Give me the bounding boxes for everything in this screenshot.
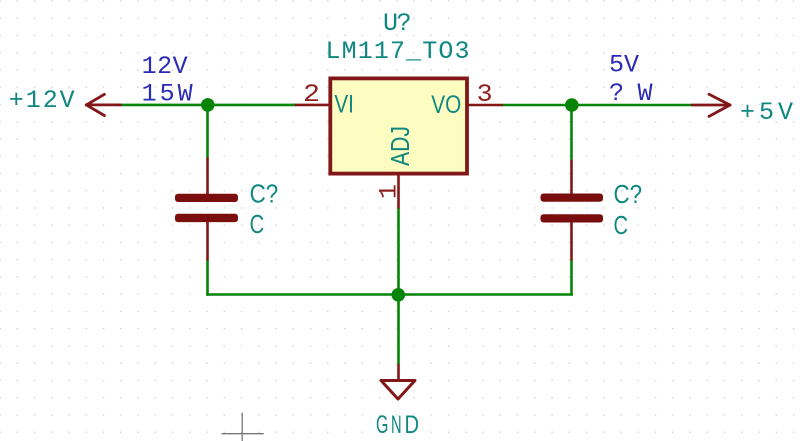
- sheet origin crosshair: [221, 413, 263, 441]
- pin stubs: [206, 158, 209, 194]
- svg-text:5V: 5V: [609, 51, 639, 80]
- label arrow +5V (output port): [692, 94, 730, 116]
- svg-text:C?: C?: [614, 179, 643, 209]
- label arrow +12V (input port): [86, 94, 120, 115]
- svg-text:C?: C?: [250, 179, 279, 209]
- svg-text:? W: ? W: [609, 79, 653, 108]
- svg-text:C: C: [250, 209, 265, 239]
- pin 1 ADJ (bottom): [397, 175, 400, 209]
- pin stubs: [570, 160, 573, 194]
- capacitor C? (right): [541, 160, 604, 261]
- svg-text:2: 2: [303, 80, 320, 109]
- pin 2 VI (left): [295, 104, 330, 107]
- svg-text:D: D: [405, 411, 420, 439]
- wire: right cap top: [570, 105, 573, 160]
- junction node: ground rail / ground stem: [392, 288, 406, 302]
- wire: right output rail: [502, 104, 693, 107]
- junction node: input rail / left capacitor: [201, 98, 215, 112]
- wire: ground stem: [397, 208, 400, 364]
- svg-text:+5V: +5V: [740, 98, 793, 127]
- ground pin stub: [397, 364, 400, 380]
- svg-text:3: 3: [477, 80, 493, 109]
- wire: left cap top: [206, 105, 209, 159]
- svg-text:U?: U?: [383, 9, 412, 38]
- ground symbol GND: [381, 364, 415, 399]
- svg-text:LM117_TO3: LM117_TO3: [326, 37, 470, 66]
- svg-text:VI: VI: [334, 91, 354, 119]
- wire: bottom ground rail: [206, 293, 573, 296]
- svg-text:15W: 15W: [142, 79, 193, 108]
- plates: [175, 194, 238, 202]
- svg-text:G: G: [376, 411, 388, 439]
- svg-text:N: N: [391, 411, 402, 439]
- junction node: output rail / right capacitor: [565, 98, 579, 112]
- svg-text:ADJ: ADJ: [385, 126, 415, 166]
- svg-text:C: C: [614, 210, 629, 240]
- svg-text:VO: VO: [431, 91, 461, 119]
- svg-text:12V: 12V: [142, 52, 188, 81]
- wire: left cap bottom: [206, 260, 209, 296]
- capacitor C? (left): [175, 158, 238, 261]
- op-amp/regulator U1 body LM117_TO3: [330, 78, 467, 173]
- wire: left input rail: [119, 104, 296, 107]
- ground triangle: [381, 381, 415, 400]
- pin 3 VO (right): [467, 104, 503, 107]
- svg-text:1: 1: [375, 184, 404, 199]
- plates: [541, 194, 604, 202]
- wire: right cap bottom: [570, 260, 573, 296]
